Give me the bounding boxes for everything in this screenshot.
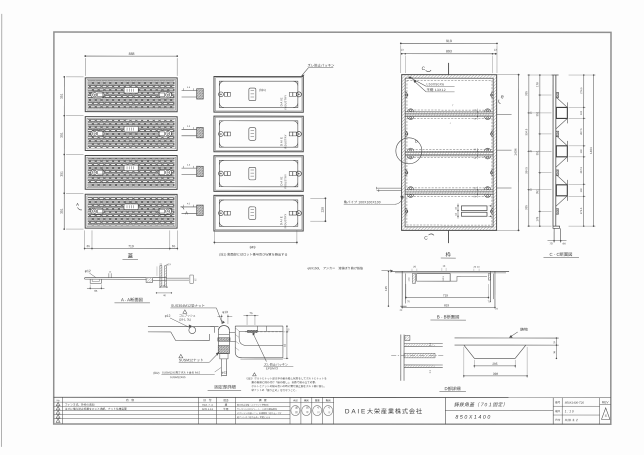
svg-text:内 容: 内 容 (126, 398, 135, 402)
C-C cross member box 3 with gussets (556, 174, 568, 206)
section B mark + cut lines (right side) (497, 94, 512, 188)
svg-text:（註3）ボルトとナット部は予め嵌め殺し状態をしてボルトとナッ: （註3）ボルトとナット部は予め嵌め殺し状態をしてボルトとナットを (245, 376, 327, 380)
B-B left frame wall (400, 271, 406, 306)
svg-text:角パイプ 100X100X100: 角パイプ 100X100X100 (344, 200, 381, 204)
grating lid panel 4 (plan) (85, 194, 177, 228)
svg-text:888: 888 (129, 52, 135, 56)
frame plan: dimension 919 (400, 39, 498, 73)
revision triangles column (56, 402, 60, 423)
frame plan: dimension 13|893|13 (401, 49, 498, 73)
label 平鋼 13X12 with leader (414, 81, 455, 92)
SUSM12 nut label (179, 352, 219, 362)
svg-text:川: 川 (328, 410, 331, 414)
C-C left dimension chain (335/13/334.5) (524, 74, 551, 227)
lid edge joint mini-section row 3 (182, 164, 204, 177)
svg-text:検図: 検図 (304, 398, 309, 402)
label: frame (枠) (441, 251, 456, 258)
remarks small text block (237, 404, 282, 419)
lid plan view: dimension 888 (top) (84, 52, 178, 76)
svg-text:日 付: 日 付 (203, 398, 212, 402)
svg-text:H18. 7. 4: H18. 7. 4 (202, 404, 213, 407)
grating lid panel 3 (plan) (85, 155, 177, 189)
svg-text:65: 65 (87, 244, 91, 248)
svg-text:製図: 製図 (326, 398, 331, 402)
svg-text:袋ナットの「廻り止め」を行なうこと。: 袋ナットの「廻り止め」を行なうこと。 (251, 388, 298, 392)
phi12 label + gomu bush labels (165, 314, 196, 328)
svg-text:A - A断面図: A - A断面図 (121, 297, 143, 302)
label: fixing detail (固定部詳細) (208, 385, 242, 391)
lid edge joint mini-section row 1 (182, 86, 204, 99)
svg-text:INDUSTRY: INDUSTRY (284, 214, 287, 229)
lid plan view: left dimension chain 351 x4 (60, 76, 84, 230)
svg-text:B - B断面図: B - B断面図 (437, 314, 459, 319)
svg-text:65: 65 (172, 244, 176, 248)
anchor label (307, 266, 393, 272)
svg-text:850X1400-T20: 850X1400-T20 (565, 401, 585, 405)
svg-text:φ13: φ13 (222, 310, 228, 314)
frame opening 3 dashed seat line (407, 158, 492, 188)
svg-text:φ12: φ12 (85, 269, 91, 273)
svg-text:267.5: 267.5 (580, 128, 583, 135)
frame cross members (405, 109, 493, 121)
title block outline (54, 396, 611, 398)
svg-text:100: 100 (580, 110, 583, 115)
C-C cross member box 2 with gussets (556, 135, 568, 167)
svg-text:φ12: φ12 (222, 370, 228, 374)
revision row 1 (65, 403, 228, 407)
76 dim over frame seat (243, 311, 258, 325)
svg-text:蓋の裏側に締め付け「嵌め殺し」、全数で組み立ての事。: 蓋の裏側に締め付け「嵌め殺し」、全数で組み立ての事。 (251, 380, 317, 384)
svg-text:鋳物: 鋳物 (520, 327, 528, 332)
svg-text:1 : 1 0: 1 : 1 0 (565, 409, 574, 413)
svg-text:川: 川 (317, 410, 320, 414)
B-B right frame wall (488, 271, 495, 306)
svg-text:295: 295 (492, 362, 497, 366)
A-A left 65 dimension (87, 284, 105, 292)
svg-text:SUSM12の高さボルト含め 64.5: SUSM12の高さボルト含め 64.5 (162, 371, 201, 375)
svg-text:274.5: 274.5 (580, 207, 583, 214)
C-C right dimension chain (274.5/100/267.5) (569, 74, 586, 227)
svg-text:C - C断面図: C - C断面図 (550, 252, 573, 257)
A-A small dims above rib (157, 263, 171, 276)
svg-text:H18. 3. 2: H18. 3. 2 (565, 418, 578, 422)
frame side-wall bolt lugs (405, 92, 493, 98)
phi12 at bolt end (221, 370, 227, 377)
svg-text:DAIE: DAIE (279, 136, 283, 146)
svg-text:平鋼 13X12: 平鋼 13X12 (426, 88, 445, 92)
C-C flat-bar pads (556, 92, 559, 98)
paper scan edge (0, 14, 2, 447)
frame interior lug plan detail (bottom right) (455, 204, 492, 219)
C-C anchor stub + 70/44 dims (547, 228, 566, 245)
svg-text:719: 719 (128, 244, 134, 248)
label: anti-shift packing (ズレ防止パッキン) with leader (302, 64, 335, 77)
svg-text:蓋: 蓋 (128, 253, 134, 260)
dim 295 (474, 360, 517, 368)
grating lid panel 2 (plan) (85, 117, 177, 151)
svg-text:351: 351 (60, 93, 64, 99)
svg-text:(註1): (註1) (259, 88, 266, 92)
svg-text:担当: 担当 (223, 398, 229, 402)
note 2 fraction: bolt spec (153, 367, 221, 379)
phi13 dim over cap (217, 310, 232, 324)
label: D detail (439, 386, 466, 392)
svg-text:819: 819 (444, 303, 449, 307)
svg-text:鋳鉄角蓋（７0１固定）: 鋳鉄角蓋（７0１固定） (454, 401, 508, 408)
svg-text:INDUSTRY: INDUSTRY (284, 174, 287, 189)
svg-text:25 13: 25 13 (473, 266, 480, 269)
svg-text:919: 919 (446, 39, 452, 43)
section C mark (top) (422, 66, 431, 72)
svg-text:125: 125 (384, 286, 388, 291)
bolt assembly: cap nut, washers, packing, nut (218, 325, 230, 375)
svg-text:ズレ防止パッキン: ズレ防止パッキン (307, 64, 335, 68)
svg-text:351: 351 (535, 111, 539, 116)
svg-text:1404: 1404 (589, 147, 593, 154)
svg-text:228: 228 (321, 207, 325, 213)
svg-text:351: 351 (60, 171, 64, 177)
label 角パイプ with leader (344, 196, 404, 204)
svg-text:はすに噛み防止処置をのこと追記、ナット仕様変更: はすに噛み防止処置をのこと追記、ナット仕様変更 (65, 407, 127, 411)
casting label (鋳物) (509, 327, 528, 338)
svg-text:C: C (422, 66, 426, 72)
product name block (445, 397, 553, 424)
revision row 2 (65, 407, 229, 411)
svg-text:65: 65 (94, 289, 98, 293)
B-B 125 dim (384, 271, 389, 307)
svg-text:D部詳細: D部詳細 (445, 386, 462, 391)
section A-A cut marks on lid plan (76, 202, 188, 216)
svg-text:(註2): (註2) (153, 371, 159, 375)
svg-text:承認: 承認 (293, 398, 298, 402)
svg-text:719: 719 (443, 293, 448, 297)
small revision triangle near label (183, 310, 187, 313)
svg-text:178: 178 (535, 82, 539, 87)
A-A lid plate section (85, 270, 146, 283)
svg-text:田: 田 (306, 407, 309, 410)
svg-text:267.5: 267.5 (580, 166, 583, 173)
svg-text:日付: 日付 (555, 418, 561, 422)
right 24/36 dims (553, 337, 557, 359)
svg-text:(註1) 裏面部にはロット番号及びW質を鋳出する: (註1) 裏面部にはロット番号及びW質を鋳出する (219, 253, 287, 257)
svg-text:中: 中 (306, 410, 309, 414)
revision table header texts (57, 398, 267, 402)
svg-text:┘: ┘ (449, 122, 452, 126)
approval stamp columns (290, 397, 334, 424)
svg-text:DAIE: DAIE (345, 408, 367, 415)
svg-text:REV: REV (602, 400, 609, 404)
svg-text:牛尾: 牛尾 (223, 407, 229, 411)
svg-text:廻ナットの「廻り止め」変更とせる: 廻ナットの「廻り止め」変更とせる (237, 416, 270, 419)
svg-text:1: 1 (58, 420, 59, 423)
packing label leader (253, 333, 294, 371)
detail D circle on frame (396, 138, 422, 164)
svg-text:SUSM12X65: SUSM12X65 (170, 376, 186, 379)
label L50X50X6 with leader (409, 77, 455, 87)
note 3: bolt-nut assembly instructions (245, 373, 327, 392)
lid bottom-view panel 1 (214, 77, 303, 113)
svg-text:摘 要: 摘 要 (259, 398, 267, 402)
svg-text:堀: 堀 (295, 406, 298, 410)
svg-text:φ13: φ13 (166, 263, 171, 266)
section C cut stub (top) (448, 63, 450, 75)
svg-text:850X1400: 850X1400 (455, 415, 491, 421)
label: A-A section (114, 297, 150, 303)
svg-text:351: 351 (535, 150, 539, 155)
svg-text:INDUSTRY: INDUSTRY (284, 95, 287, 110)
svg-text:オプションの固い「+」申請関数「廻り止」付す: オプションの固い「+」申請関数「廻り止」付す (237, 412, 282, 415)
label: lid (蓋) (122, 253, 138, 260)
section C cut stub (bottom) + C mark (424, 230, 448, 243)
svg-text:351: 351 (60, 208, 64, 214)
svg-text:44: 44 (283, 344, 287, 348)
label SUS304M12 cap nut with leader (170, 304, 224, 324)
frame opening 1 dashed seat line (407, 80, 492, 110)
lid bottom-view panel 2 (214, 116, 303, 152)
svg-text:70: 70 (549, 242, 553, 246)
svg-text:178: 178 (535, 216, 539, 221)
lid edge joint mini-section row 2 (182, 125, 204, 138)
svg-text:DAIE: DAIE (279, 97, 283, 107)
svg-text:334.5: 334.5 (525, 128, 528, 135)
svg-text:D: D (415, 139, 418, 144)
C-C section wall (551, 75, 559, 228)
drawing frame border (54, 32, 611, 424)
svg-text:田: 田 (295, 411, 298, 414)
svg-text:76: 76 (249, 311, 253, 315)
D detail: wall and plates (391, 335, 444, 381)
svg-text:351: 351 (535, 189, 539, 194)
lid bottom view: dimension 849 (213, 230, 297, 249)
C-C overall dimension 1404 (586, 74, 596, 227)
lid bottom-view panel 4 (214, 195, 303, 231)
svg-text:44: 44 (562, 242, 566, 246)
svg-text:335: 335 (524, 205, 528, 210)
B-B dim 70|719|70 (405, 284, 491, 303)
svg-text:枠: 枠 (445, 251, 451, 258)
company name (345, 407, 423, 415)
svg-text:335: 335 (524, 91, 528, 96)
lid bottom view: right dimension 228 (310, 197, 326, 222)
svg-text:ボルトとナットの組み合いの時に實せ廻止廻をボルト側に廻し、: ボルトとナットの組み合いの時に實せ廻止廻をボルト側に廻し、 (251, 384, 326, 388)
svg-text:4: 4 (605, 414, 607, 418)
A-A 40 dims below (156, 285, 172, 297)
svg-text:審査: 審査 (315, 398, 320, 402)
svg-text:φ5X150L アンカー 溶接ぼり曲げ鉄筋: φ5X150L アンカー 溶接ぼり曲げ鉄筋 (307, 266, 363, 270)
svg-text:APR.1.13: APR.1.13 (202, 408, 214, 411)
B-B lid top plate (391, 271, 509, 273)
A-A bolt-boss rib section (146, 266, 197, 287)
svg-text:蓋み防止溶接（ユアラント準拠改）: 蓋み防止溶接（ユアラント準拠改） (237, 404, 270, 407)
svg-text:L50X50X6: L50X50X6 (426, 82, 444, 86)
svg-text:今: 今 (328, 406, 331, 410)
lid section at fixing point (148, 327, 219, 341)
svg-text:大栄産業株式会社: 大栄産業株式会社 (367, 407, 423, 415)
svg-text:固定部詳細: 固定部詳細 (214, 385, 236, 390)
svg-text:DAIE: DAIE (279, 176, 283, 186)
svg-text:今: 今 (317, 406, 320, 410)
svg-text:A: A (76, 202, 79, 207)
44 + 7.5 dims right of frame seat (283, 325, 291, 359)
svg-text:A: A (185, 210, 188, 215)
svg-text:1404: 1404 (514, 148, 518, 156)
frame seat section (right of bolt) (229, 326, 288, 359)
svg-text:110.5: 110.5 (442, 275, 445, 281)
svg-text:φ12: φ12 (165, 314, 171, 318)
svg-text:DAIE: DAIE (279, 216, 283, 226)
frame opening 2 dashed seat line (407, 118, 492, 149)
svg-text:EPDM t3: EPDM t3 (266, 366, 278, 370)
A-A: phi12 label (85, 269, 96, 277)
label: B-B section (430, 314, 466, 320)
svg-text:100: 100 (580, 188, 583, 193)
svg-text:334.5: 334.5 (525, 167, 528, 174)
C-C inner dimension chain (178/351) (535, 74, 551, 227)
svg-text:番号: 番号 (555, 400, 561, 404)
frame opening 4 dashed seat line (407, 196, 492, 225)
frame plan: right dimension 1404 (497, 74, 520, 232)
svg-text:C: C (424, 236, 428, 242)
svg-text:398: 398 (493, 372, 498, 376)
svg-text:ウレタン(+)(70)ブレート・(+)枠の補強関係: ウレタン(+)(70)ブレート・(+)枠の補強関係 (237, 408, 277, 411)
svg-text:(29-1, 3L): (29-1, 3L) (179, 318, 191, 322)
C-C cross member box 1 with gussets (556, 97, 568, 129)
B-B small top dims (412, 265, 480, 271)
revision table grid (54, 397, 290, 424)
svg-text:縮尺: 縮尺 (555, 409, 561, 413)
drawing info table (553, 398, 599, 425)
frame body (plan) (402, 75, 497, 231)
label: C-C section (C-C断面図) (543, 252, 579, 258)
rib profile detail (casting section) (455, 338, 559, 358)
B-B dim 819 (400, 299, 499, 312)
section B cut lines (left side) (377, 187, 402, 192)
svg-text:351: 351 (60, 132, 64, 138)
svg-text:849: 849 (250, 245, 256, 249)
svg-text:堀: 堀 (225, 403, 228, 407)
svg-text:SUS304M12袋ナット: SUS304M12袋ナット (171, 304, 205, 308)
svg-text:274.5: 274.5 (580, 87, 583, 94)
svg-text:INDUSTRY: INDUSTRY (284, 134, 287, 149)
REV box (600, 398, 611, 425)
lid bottom-view panel 3 (214, 156, 303, 192)
lid edge joint mini-section row 4 (182, 202, 204, 215)
lid plan bottom dimension 65|719|65 (84, 230, 178, 250)
B-B interior: flat bar + lid body (408, 274, 487, 284)
svg-text:893: 893 (446, 49, 452, 53)
svg-text:フィンヌ式、外枠の追加: フィンヌ式、外枠の追加 (65, 403, 95, 407)
svg-text:100: 100 (580, 149, 583, 154)
dim 398 (463, 347, 528, 378)
grating lid panel 1 (plan) (85, 78, 177, 112)
svg-text:SUSM12ナット: SUSM12ナット (179, 358, 204, 362)
